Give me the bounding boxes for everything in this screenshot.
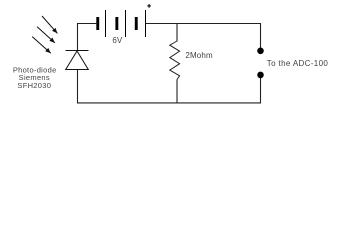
wire bottom: [77, 102, 261, 104]
wire left vertical (photodiode branch) lower: [77, 70, 79, 104]
photodiode D1 cathode bar: [66, 50, 89, 52]
wire right vertical upper: [260, 23, 262, 48]
wire left vertical (photodiode branch) upper: [77, 23, 79, 51]
output terminal node upper: [257, 48, 264, 55]
light arrow 1: [42, 16, 57, 33]
battery BT1 plate negative 3: [135, 17, 138, 30]
output terminal node lower: [257, 72, 264, 79]
svg-text:2Mohm: 2Mohm: [185, 51, 213, 60]
resistor R1 top lead: [176, 24, 178, 42]
photodiode D1 label: [13, 65, 57, 90]
wire right vertical lower: [260, 78, 262, 103]
resistor R1 bottom lead: [176, 80, 178, 104]
svg-text:6V: 6V: [112, 36, 122, 45]
light arrow 2: [37, 27, 55, 43]
battery BT1 plate positive 1: [105, 10, 106, 37]
wire top from battery to right branch: [146, 23, 261, 25]
photodiode D1 triangle: [66, 51, 89, 70]
light arrow 3: [32, 37, 51, 54]
svg-text:SFH2030: SFH2030: [17, 81, 51, 90]
battery BT1 plus polarity mark: [147, 4, 151, 8]
battery BT1 plate negative 2: [115, 17, 118, 30]
svg-text:To the ADC-100: To the ADC-100: [267, 59, 329, 68]
wire top from photodiode branch to battery: [78, 23, 97, 25]
battery BT1 plate negative 1: [96, 17, 99, 30]
battery BT1 plate positive 2: [125, 10, 126, 37]
battery BT1 plate positive 3: [145, 10, 146, 37]
resistor R1 zigzag body: [170, 41, 180, 80]
